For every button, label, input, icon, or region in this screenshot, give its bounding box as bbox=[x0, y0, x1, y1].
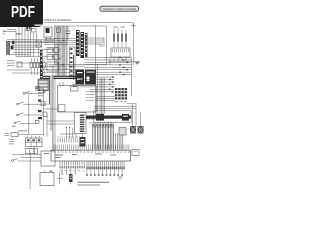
wire bbox=[56, 26, 58, 76]
pin drops bbox=[61, 168, 76, 174]
harness strip H1 bbox=[93, 124, 114, 150]
wire bbox=[43, 72, 85, 74]
wire bbox=[113, 57, 115, 61]
wire bbox=[7, 46, 42, 48]
stamp box (top right) bbox=[100, 6, 139, 11]
bus bar BB1 bbox=[43, 76, 76, 78]
wire bbox=[34, 147, 36, 155]
relay box X2 bbox=[138, 126, 144, 134]
label stack bbox=[9, 140, 14, 144]
wire bbox=[47, 123, 75, 125]
ignition coil T4 bbox=[125, 30, 127, 42]
connector CN5 bbox=[81, 32, 85, 58]
connector block CB1 bbox=[38, 79, 48, 91]
switch box SW2d bbox=[54, 55, 59, 60]
PDF badge bbox=[0, 0, 43, 27]
wire bbox=[42, 88, 44, 137]
wire fan with connector ends bbox=[80, 57, 132, 93]
ECM lower pins A bbox=[59, 161, 85, 168]
fuse box F1 bbox=[31, 29, 36, 33]
ECM top pins bbox=[54, 145, 129, 151]
wire bbox=[20, 156, 41, 158]
wire bbox=[7, 40, 55, 42]
pin labels bbox=[60, 170, 85, 173]
harness strip H2 bbox=[116, 133, 123, 150]
junction bbox=[66, 68, 67, 69]
control unit U5 bbox=[41, 151, 55, 166]
wire bbox=[44, 38, 85, 40]
wire bbox=[72, 128, 74, 139]
wire bbox=[52, 65, 54, 150]
bus knot K4 bbox=[96, 114, 104, 121]
wire bbox=[43, 65, 85, 67]
svg-text:PDF: PDF bbox=[11, 4, 35, 21]
wire bbox=[18, 134, 43, 136]
wire bbox=[104, 78, 106, 114]
wire bbox=[66, 26, 68, 65]
wire bbox=[125, 42, 127, 49]
wire bbox=[102, 78, 104, 114]
node + bbox=[131, 23, 135, 27]
wire bbox=[55, 26, 57, 76]
ECM box U7 bbox=[51, 150, 131, 161]
power block PB2 bbox=[85, 70, 96, 85]
wire bbox=[10, 49, 55, 51]
label mark bbox=[38, 95, 44, 96]
switch box SW2c bbox=[47, 55, 53, 60]
junction speck bbox=[44, 91, 46, 92]
connector CN4 bbox=[76, 30, 80, 56]
ECU inner box bbox=[71, 84, 79, 91]
wire bbox=[97, 65, 99, 114]
wire bbox=[44, 44, 85, 46]
junction bbox=[63, 40, 64, 41]
pin tick row bbox=[57, 137, 80, 143]
switch S4 bbox=[12, 159, 41, 162]
ignition coil T2 bbox=[117, 28, 119, 42]
relay K2 bbox=[36, 41, 42, 47]
wire trunk bbox=[48, 76, 50, 104]
relay box X1 bbox=[130, 126, 136, 134]
wire bbox=[38, 47, 40, 57]
wire bbox=[94, 105, 136, 107]
wire bbox=[64, 26, 66, 76]
margin label 2 bbox=[3, 32, 6, 35]
coil labels bbox=[114, 27, 125, 28]
switch box SW2a bbox=[47, 48, 53, 53]
resistor pack R1 bbox=[80, 137, 86, 147]
connector CN10 bbox=[132, 150, 139, 156]
terminal dots bbox=[42, 71, 43, 78]
wire bbox=[12, 153, 41, 155]
ECU label lines bbox=[86, 92, 95, 101]
wire bbox=[101, 78, 103, 114]
wire bbox=[125, 57, 127, 61]
wire bbox=[117, 42, 119, 49]
wire bbox=[33, 33, 35, 57]
wire bbox=[7, 29, 16, 31]
junction bbox=[62, 56, 63, 57]
wire bbox=[15, 30, 17, 57]
label marks bbox=[115, 100, 127, 103]
wire bbox=[21, 26, 23, 57]
node tap bbox=[57, 177, 63, 179]
wire id labels bbox=[107, 57, 118, 77]
wire bbox=[7, 39, 55, 41]
wire bbox=[10, 44, 42, 46]
ground G1 bbox=[135, 61, 140, 65]
wire bbox=[44, 40, 85, 42]
ECU box U4 bbox=[58, 86, 97, 112]
junction bbox=[60, 42, 61, 43]
capacitor C1 bbox=[66, 26, 71, 40]
wire bbox=[41, 103, 49, 105]
switch S3 bbox=[14, 121, 36, 124]
wire bbox=[59, 172, 61, 184]
wire bbox=[62, 82, 64, 86]
wire bbox=[58, 26, 60, 76]
battery B1 bbox=[25, 26, 32, 31]
ECU inner box 2 bbox=[59, 105, 66, 112]
caption text line 1 bbox=[78, 181, 110, 183]
bus knot K5 bbox=[122, 114, 129, 121]
connector grid CG1 bbox=[115, 88, 127, 100]
fuse list text bbox=[7, 61, 15, 66]
wire bbox=[45, 108, 58, 110]
ignition module U2 bbox=[111, 48, 130, 57]
wire bbox=[36, 33, 38, 41]
bus bar BB2 bbox=[86, 116, 131, 119]
wire bbox=[61, 26, 63, 76]
wire bbox=[60, 26, 62, 76]
wire bbox=[135, 104, 137, 126]
wire bbox=[13, 51, 42, 53]
label text bbox=[12, 126, 16, 127]
wire bbox=[44, 22, 134, 24]
switch S2 bbox=[17, 113, 43, 116]
label text bbox=[18, 130, 27, 131]
wire bbox=[66, 128, 68, 139]
wire bbox=[47, 120, 75, 122]
wire bbox=[132, 104, 134, 126]
wire bbox=[131, 58, 133, 97]
wire bbox=[97, 98, 116, 100]
junction bbox=[59, 58, 60, 59]
wire bbox=[30, 32, 32, 57]
pump switch M2 bbox=[23, 91, 43, 94]
junction bbox=[69, 127, 70, 128]
caption text line 2 bbox=[78, 184, 101, 186]
margin label bbox=[3, 30, 7, 33]
connector box U6 bbox=[75, 113, 87, 134]
label marks bbox=[119, 177, 123, 180]
wire bundle to coils bbox=[85, 38, 105, 47]
ignition coil T3 bbox=[121, 30, 123, 42]
wire bbox=[65, 26, 67, 76]
wire bbox=[97, 96, 116, 98]
label text bbox=[16, 33, 22, 34]
junction block bbox=[11, 46, 14, 49]
wire bbox=[121, 57, 123, 61]
wire bbox=[59, 82, 61, 86]
wire bbox=[97, 100, 116, 102]
wire bbox=[117, 57, 119, 61]
switch box SB2 bbox=[38, 110, 47, 117]
wire bbox=[46, 115, 48, 137]
wire bbox=[121, 42, 123, 49]
relay box K6 bbox=[57, 28, 61, 33]
ignition switch SW1 bbox=[44, 27, 52, 40]
wire bbox=[18, 26, 20, 57]
wire bbox=[43, 69, 85, 71]
switch box SB3 bbox=[36, 117, 43, 124]
junction block bbox=[12, 41, 14, 44]
wire bbox=[127, 103, 137, 105]
wire bbox=[99, 78, 101, 114]
wire bbox=[109, 57, 111, 65]
label mark bbox=[38, 92, 45, 93]
wire bbox=[94, 107, 136, 109]
svg-text:SCHEMATIC WIRING DIAGRAM: SCHEMATIC WIRING DIAGRAM bbox=[103, 8, 137, 11]
junction bbox=[66, 127, 67, 128]
wire bbox=[113, 42, 115, 49]
wire bbox=[140, 112, 142, 126]
wire bbox=[12, 39, 14, 49]
fuse F7 bbox=[11, 133, 18, 137]
connector CN1 bbox=[7, 42, 10, 55]
junction box outline JB1 bbox=[94, 111, 131, 122]
wire bbox=[52, 131, 54, 151]
ECM lower pins B bbox=[86, 161, 125, 176]
harness band bbox=[50, 76, 54, 131]
label dash row bbox=[90, 121, 113, 124]
wire bbox=[73, 55, 75, 80]
wire bbox=[29, 152, 31, 189]
relay block K3 bbox=[26, 136, 43, 147]
battery box B2 bbox=[40, 170, 54, 186]
wire bbox=[60, 133, 75, 135]
connector row CN7 bbox=[30, 58, 45, 75]
ignition coil T1 bbox=[113, 28, 115, 42]
junction bbox=[62, 64, 63, 65]
sensor box SB0 bbox=[36, 87, 44, 91]
connector CN6 bbox=[85, 33, 88, 57]
wire bbox=[24, 31, 26, 58]
wire bbox=[95, 25, 97, 116]
wire bbox=[108, 60, 140, 62]
switch box SW2b bbox=[54, 48, 59, 53]
switch S1 bbox=[17, 102, 41, 105]
power block PB1 bbox=[76, 70, 85, 85]
wire bbox=[54, 76, 56, 150]
wire bbox=[17, 62, 43, 64]
wire bbox=[75, 134, 77, 139]
main unit outline U1 bbox=[55, 26, 107, 65]
switch box SB1 bbox=[38, 100, 45, 106]
connector strip CN2 bbox=[40, 50, 43, 80]
wire bbox=[63, 26, 65, 76]
wire bbox=[44, 42, 85, 44]
wire bbox=[28, 94, 30, 134]
wire bbox=[133, 23, 135, 65]
wire bbox=[3, 31, 16, 33]
terminal block TB1 bbox=[26, 149, 38, 154]
wire bbox=[7, 69, 30, 71]
connector CN3 bbox=[70, 47, 76, 78]
wire bbox=[27, 26, 29, 57]
switch block SW3 bbox=[47, 62, 59, 71]
wire bbox=[82, 134, 84, 138]
junction bbox=[59, 49, 60, 50]
small box X3 bbox=[119, 128, 126, 136]
wire bbox=[12, 72, 43, 74]
label text bbox=[4, 134, 10, 136]
wire bbox=[59, 26, 61, 76]
junction bbox=[55, 38, 56, 39]
wire bbox=[16, 55, 55, 57]
wire bbox=[86, 118, 98, 120]
connector mini CN12 bbox=[69, 174, 73, 185]
wire bbox=[69, 128, 71, 139]
wire bbox=[10, 42, 55, 44]
fuse F3 bbox=[17, 62, 22, 67]
junction bbox=[57, 62, 58, 63]
wire bbox=[7, 53, 30, 55]
